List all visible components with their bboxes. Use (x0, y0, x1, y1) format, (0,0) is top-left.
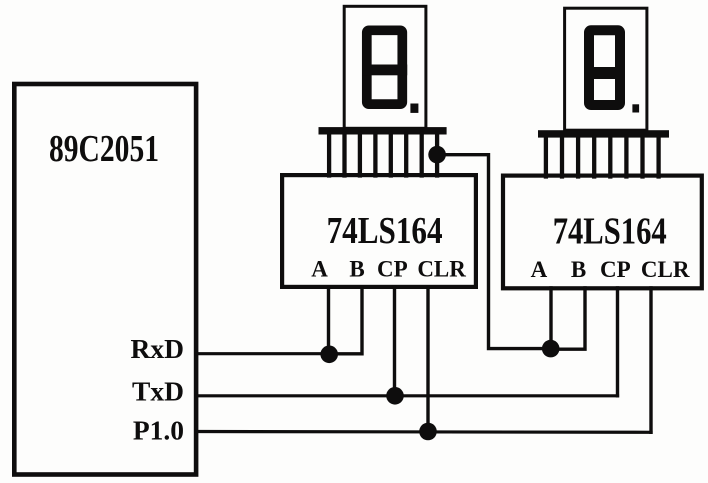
DS1 socket bar (319, 127, 447, 134)
svg-text:RxD: RxD (131, 333, 184, 364)
junction dot TxD to U2 CP (386, 387, 404, 405)
wire RxD from U1 to U2 A/B junction (197, 352, 331, 355)
U2 pin CP wire (393, 287, 396, 396)
svg-text:CP: CP (600, 257, 631, 282)
DS2 socket bar (538, 130, 669, 137)
svg-text:P1.0: P1.0 (133, 415, 184, 446)
svg-text:A: A (311, 257, 328, 282)
7-segment display DS2 box (565, 8, 647, 130)
7-segment display DS1 box (344, 6, 426, 128)
DS1 decimal point (410, 104, 418, 113)
shift register U2 74LS164 box (282, 175, 476, 287)
DS1 digit middle segment (362, 65, 407, 76)
junction dot DS1 pin8 (428, 146, 446, 164)
wire P1.0 from U1 to U3 CLR (197, 430, 652, 434)
IC U1 89C2051 box (14, 84, 196, 475)
DS2 digit 8 outline (589, 30, 620, 105)
U3 pin B wire (551, 288, 585, 349)
U3 pin CP wire (616, 288, 619, 396)
U2 pin A wire (327, 287, 330, 355)
svg-text:A: A (531, 257, 548, 282)
svg-text:TxD: TxD (132, 376, 184, 407)
DS1 digit 8 outline (367, 30, 403, 104)
svg-text:CLR: CLR (641, 257, 690, 282)
svg-text:74LS164: 74LS164 (327, 210, 443, 252)
junction dot U3 A/B (542, 340, 560, 358)
U3 pin A wire (549, 288, 552, 349)
wire TxD from U1 to U3 CP (197, 394, 618, 397)
svg-text:CP: CP (377, 257, 408, 282)
shift register U3 74LS164 box (503, 176, 702, 289)
svg-text:CLR: CLR (417, 257, 466, 282)
DS2 pin row (8 pins) (546, 137, 659, 177)
U2 pin B wire (329, 287, 362, 354)
DS2 decimal point (632, 104, 639, 112)
svg-text:74LS164: 74LS164 (553, 211, 667, 253)
junction dot P1.0 to U2 CLR (419, 423, 437, 441)
svg-text:B: B (349, 257, 364, 282)
svg-text:B: B (571, 257, 586, 282)
DS2 digit middle segment (584, 67, 625, 79)
U2 pin CLR wire (426, 287, 429, 432)
wire serial data DS1 pin8 to U3 A/B (437, 155, 551, 349)
DS1 pin row (8 pins) (329, 134, 437, 176)
junction dot RxD to U2 A/B (320, 346, 338, 364)
svg-text:89C2051: 89C2051 (49, 128, 159, 170)
U3 pin CLR wire (649, 288, 652, 432)
